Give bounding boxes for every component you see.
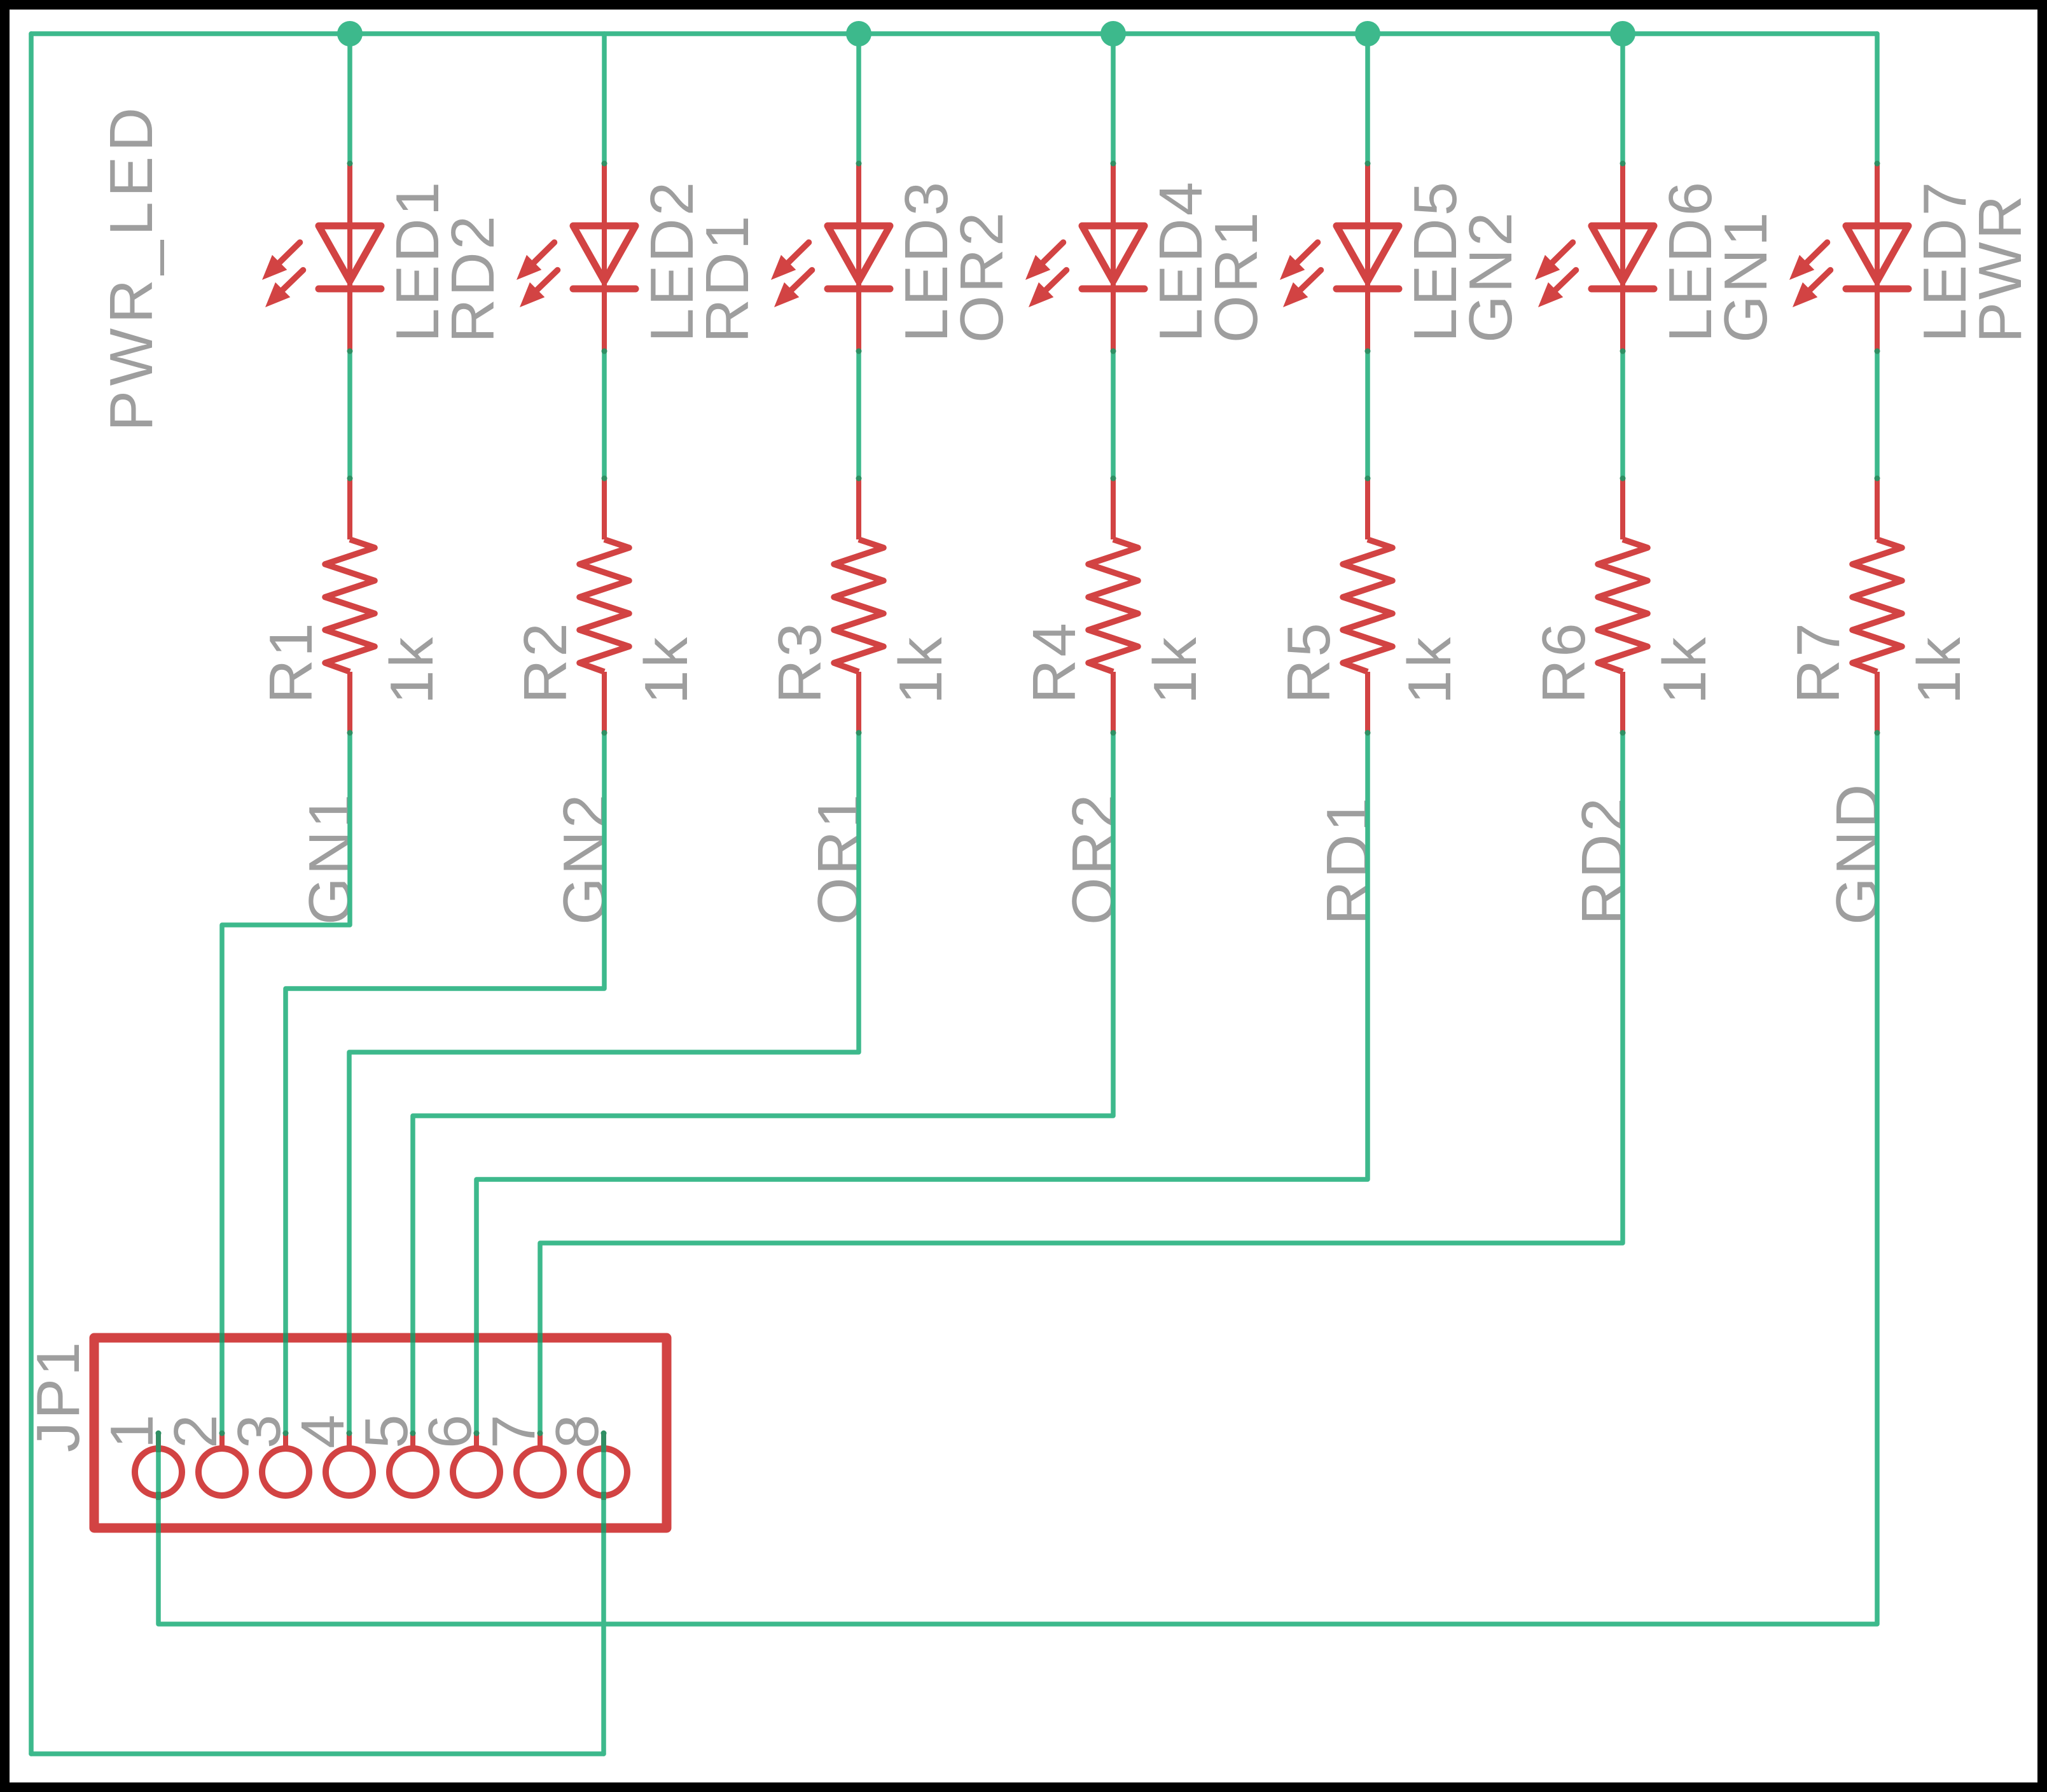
wire net GN2 from R2 to JP1 pin 3 bbox=[286, 733, 604, 1433]
wire LED4 anode from PWR bus bbox=[1111, 34, 1116, 163]
svg-text:2: 2 bbox=[162, 1412, 230, 1448]
wire LED5 cathode to R5 bbox=[1365, 351, 1370, 478]
wire LED6 anode from PWR bus bbox=[1620, 34, 1625, 163]
svg-text:8: 8 bbox=[543, 1412, 611, 1448]
svg-text:OR1: OR1 bbox=[1202, 210, 1270, 343]
svg-text:1k: 1k bbox=[632, 635, 700, 704]
svg-text:OR2: OR2 bbox=[948, 210, 1016, 343]
svg-text:R6: R6 bbox=[1530, 620, 1598, 704]
svg-text:R3: R3 bbox=[766, 620, 834, 704]
junction PWR bus / LED3 bbox=[846, 21, 871, 46]
wire LED2 cathode to R2 bbox=[602, 351, 607, 478]
svg-text:1k: 1k bbox=[1396, 635, 1464, 704]
wire LED2 anode from PWR bus bbox=[602, 34, 607, 163]
pin JP1-7 bbox=[517, 1433, 564, 1496]
wire net RD1 from R5 to JP1 pin 6 bbox=[476, 733, 1368, 1433]
wire net PWR riser to JP1 pin 8 bbox=[601, 1433, 606, 1754]
svg-text:3: 3 bbox=[225, 1412, 293, 1448]
wire net GN1 from R1 to JP1 pin 2 bbox=[222, 733, 350, 1433]
svg-text:OR1: OR1 bbox=[805, 792, 873, 925]
svg-text:R7: R7 bbox=[1784, 620, 1852, 704]
svg-text:R2: R2 bbox=[511, 620, 579, 704]
resistor R7 bbox=[1852, 478, 1902, 733]
svg-text:R1: R1 bbox=[257, 620, 325, 704]
svg-text:6: 6 bbox=[416, 1412, 484, 1448]
junction PWR bus / LED5 bbox=[1355, 21, 1380, 46]
svg-text:RD2: RD2 bbox=[439, 213, 507, 343]
pin JP1-1 bbox=[135, 1433, 182, 1496]
LED LED3 bbox=[771, 163, 890, 351]
svg-text:1k: 1k bbox=[1905, 635, 1973, 704]
wire net PWR bottom run to pin 8 bbox=[31, 1751, 604, 1756]
wire net PWR top bus bbox=[31, 31, 1877, 36]
LED LED1 bbox=[262, 163, 381, 351]
svg-text:5: 5 bbox=[352, 1412, 420, 1448]
pin JP1-2 bbox=[198, 1433, 246, 1496]
svg-text:R4: R4 bbox=[1020, 620, 1088, 704]
wire LED4 cathode to R4 bbox=[1111, 351, 1116, 478]
wire net OR2 from R4 to JP1 pin 5 bbox=[413, 733, 1113, 1433]
svg-text:PWR_LED: PWR_LED bbox=[97, 102, 165, 431]
LED LED7 bbox=[1789, 163, 1908, 351]
pin JP1-3 bbox=[262, 1433, 309, 1496]
resistor R3 bbox=[834, 478, 884, 733]
resistor R6 bbox=[1598, 478, 1648, 733]
svg-text:1k: 1k bbox=[1141, 635, 1209, 704]
pin JP1-8 bbox=[580, 1433, 627, 1496]
wire net OR1 from R3 to JP1 pin 4 bbox=[349, 733, 859, 1433]
svg-text:GN2: GN2 bbox=[551, 792, 619, 925]
svg-text:7: 7 bbox=[480, 1412, 548, 1448]
svg-text:4: 4 bbox=[289, 1412, 357, 1448]
svg-text:1k: 1k bbox=[1651, 635, 1719, 704]
svg-text:1k: 1k bbox=[887, 635, 955, 704]
wire LED3 cathode to R3 bbox=[856, 351, 861, 478]
wire net PWR left edge bbox=[29, 34, 34, 1754]
LED LED5 bbox=[1280, 163, 1399, 351]
junction PWR bus / LED6 bbox=[1610, 21, 1635, 46]
wire LED1 anode from PWR bus bbox=[347, 34, 352, 163]
svg-text:GN1: GN1 bbox=[296, 792, 364, 925]
svg-text:GN2: GN2 bbox=[1457, 210, 1525, 343]
resistor R1 bbox=[325, 478, 375, 733]
svg-text:PWR: PWR bbox=[1966, 193, 2034, 343]
wire LED1 cathode to R1 bbox=[347, 351, 352, 478]
svg-text:GND: GND bbox=[1824, 782, 1892, 925]
svg-text:RD1: RD1 bbox=[693, 213, 761, 343]
svg-text:OR2: OR2 bbox=[1060, 792, 1128, 925]
svg-text:R5: R5 bbox=[1275, 620, 1343, 704]
wire overlap shading at JP1 crossings bbox=[156, 1333, 606, 1533]
LED LED6 bbox=[1535, 163, 1654, 351]
wire net GND from JP1 pin 1 to R7 bbox=[158, 733, 1877, 1624]
svg-text:1k: 1k bbox=[378, 635, 446, 704]
connector JP1 body bbox=[94, 1338, 667, 1528]
wire LED7 cathode to R7 bbox=[1875, 351, 1880, 478]
wire LED7 anode from PWR bus bbox=[1875, 34, 1880, 163]
junction PWR bus / LED1 bbox=[337, 21, 363, 46]
pin JP1-5 bbox=[389, 1433, 436, 1496]
resistor R4 bbox=[1088, 478, 1138, 733]
wire LED5 anode from PWR bus bbox=[1365, 34, 1370, 163]
pin JP1-6 bbox=[453, 1433, 500, 1496]
svg-text:RD2: RD2 bbox=[1569, 795, 1637, 925]
wire net RD2 from R6 to JP1 pin 7 bbox=[540, 733, 1623, 1433]
resistor R2 bbox=[579, 478, 629, 733]
pin JP1-4 bbox=[326, 1433, 373, 1496]
svg-text:1: 1 bbox=[98, 1412, 166, 1448]
LED LED4 bbox=[1025, 163, 1144, 351]
svg-text:RD1: RD1 bbox=[1314, 795, 1382, 925]
resistor R5 bbox=[1343, 478, 1392, 733]
LED LED2 bbox=[517, 163, 635, 351]
svg-text:GN1: GN1 bbox=[1712, 210, 1780, 343]
wire LED3 anode from PWR bus bbox=[856, 34, 861, 163]
wire LED6 cathode to R6 bbox=[1620, 351, 1625, 478]
svg-text:JP1: JP1 bbox=[24, 1340, 92, 1452]
junction PWR bus / LED4 bbox=[1100, 21, 1126, 46]
